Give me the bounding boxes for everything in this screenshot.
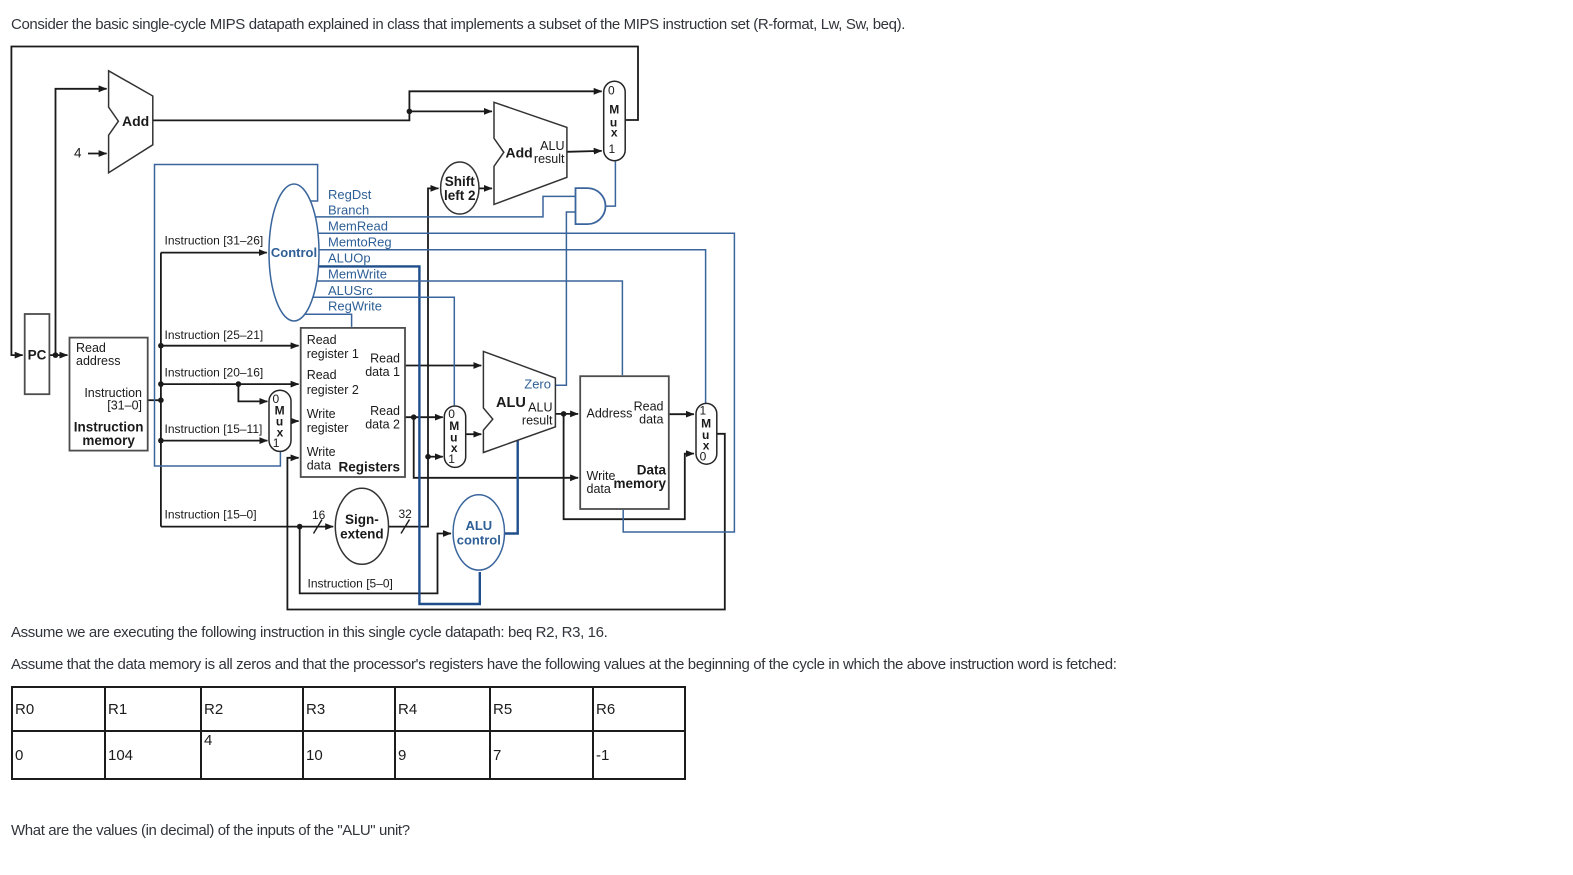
svg-text:MemtoReg: MemtoReg: [328, 235, 392, 250]
junction: sign-extend riser branch: [425, 454, 431, 460]
wire: Instruction [5-0] to ALU control: [300, 527, 451, 594]
svg-text:Read: Read: [370, 352, 400, 366]
svg-text:Instruction [31–26]: Instruction [31–26]: [165, 234, 264, 248]
svg-text:ALU: ALU: [528, 401, 552, 415]
svg-text:0: 0: [700, 450, 707, 464]
question intro text: [11, 16, 905, 34]
component: MemtoReg mux: [696, 403, 717, 464]
wire: PC+4 branch to second Add top input: [409, 110, 492, 112]
wire: ALUSrc mux output to ALU input 2: [466, 433, 481, 435]
component: top Mux (PCSrc): [604, 81, 626, 160]
svg-text:Zero: Zero: [524, 377, 551, 392]
junction: PC output: [53, 352, 59, 358]
wire: ALUSrc control signal to ALUSrc mux select: [313, 297, 454, 405]
wire: Shift left 2 output to second Add bottom input: [479, 187, 492, 189]
component: data memory box: [580, 376, 669, 509]
final question text: [11, 822, 410, 840]
wire: PC output to instruction memory Read address: [49, 354, 67, 356]
component: PC register: [25, 314, 50, 394]
svg-text:control: control: [457, 533, 501, 548]
component: Control unit ellipse: [269, 184, 319, 321]
component: ALU: [483, 351, 555, 452]
wire: Sign-extend output riser to Shift left 2: [389, 188, 439, 526]
svg-text:Read: Read: [307, 368, 337, 382]
component: ALUSrc mux: [444, 406, 465, 467]
wire: PC value riser to Add top input: [56, 89, 107, 355]
svg-text:memory: memory: [82, 433, 135, 448]
svg-text:Address: Address: [587, 407, 633, 421]
svg-text:RegWrite: RegWrite: [328, 299, 382, 314]
svg-text:1: 1: [273, 436, 280, 450]
component: Shift left 2 ellipse: [441, 162, 479, 214]
junction: Instruction [20-16] branch: [236, 381, 242, 387]
svg-text:1: 1: [699, 403, 706, 417]
svg-text:Shift: Shift: [445, 174, 475, 189]
component: registers box: [301, 328, 405, 477]
svg-text:memory: memory: [613, 476, 666, 491]
wire: second Add result to top Mux input 1: [567, 150, 602, 153]
slash: 16-bit bus width mark: [314, 520, 323, 534]
wire: Instruction [20-16] branch to RegDst mux input 0: [238, 384, 267, 401]
component: adder Add (branch target): [494, 102, 567, 204]
junction: instruction bus at memory output: [158, 397, 164, 403]
wire: Instruction [25-21] to Read register 1: [161, 345, 299, 347]
svg-text:Instruction [20–16]: Instruction [20–16]: [165, 365, 264, 379]
wire: RegDst mux output to Write register: [290, 420, 299, 422]
svg-text:Read: Read: [634, 400, 664, 414]
svg-text:register 2: register 2: [307, 383, 359, 397]
wire: instruction memory output to bus: [148, 399, 161, 401]
svg-text:ALU: ALU: [496, 395, 526, 411]
wire: ALU result bypass to MemtoReg mux input 0: [564, 414, 694, 519]
svg-text:Instruction [5–0]: Instruction [5–0]: [308, 577, 393, 591]
svg-text:register: register: [307, 421, 349, 435]
wire: PC-write-back loop (Mux output, top, left side, into PC): [11, 47, 638, 356]
wire: MemtoReg control signal to MemtoReg mux select: [319, 250, 706, 406]
junction: bus tap Instruction [20-16]: [158, 381, 164, 387]
component: instruction memory box: [70, 338, 148, 451]
svg-text:Add: Add: [506, 145, 533, 161]
svg-text:ALU: ALU: [540, 139, 564, 153]
svg-text:address: address: [76, 354, 120, 368]
svg-text:data: data: [639, 413, 663, 427]
svg-text:Instruction [15–11]: Instruction [15–11]: [165, 422, 263, 436]
svg-text:Write: Write: [307, 407, 336, 421]
wire: ALU result to data memory Address: [555, 413, 578, 415]
wire: Instruction [15-11] to RegDst mux input 1: [161, 440, 268, 442]
junction: bus tap Instruction [15-11]: [158, 438, 164, 444]
svg-text:M: M: [609, 103, 619, 117]
bottom text 1: [11, 624, 607, 642]
wire: Instruction [20-16] to Read register 2: [161, 383, 299, 385]
svg-text:PC: PC: [28, 348, 47, 363]
component: Sign-extend ellipse: [335, 488, 388, 564]
wire: RegWrite control signal to Registers: [305, 314, 352, 327]
svg-text:ALUOp: ALUOp: [328, 251, 371, 266]
svg-text:RegDst: RegDst: [328, 187, 372, 202]
svg-text:0: 0: [608, 84, 615, 98]
svg-text:Read: Read: [370, 404, 400, 418]
wire: Read data 2 branch to data memory Write data: [414, 417, 578, 478]
svg-text:data 2: data 2: [365, 418, 400, 432]
svg-text:Registers: Registers: [338, 459, 400, 474]
svg-text:MemWrite: MemWrite: [328, 267, 387, 282]
component: RegDst mux: [269, 390, 291, 451]
wire: AND gate output to top Mux select: [606, 162, 616, 207]
register value table: [11, 686, 686, 780]
wire: constant 4 into Add bottom input: [88, 153, 107, 155]
svg-text:Control: Control: [271, 245, 317, 260]
svg-text:32: 32: [399, 507, 413, 521]
svg-text:MemRead: MemRead: [328, 218, 388, 233]
svg-text:16: 16: [312, 508, 326, 522]
bottom text 2: [11, 656, 1116, 674]
wire: Add (PC+4) output to top Mux input 0: [153, 91, 602, 120]
slash: 32-bit bus width mark: [401, 520, 410, 534]
component: adder Add (PC+4): [109, 71, 153, 173]
svg-text:Read: Read: [307, 333, 337, 347]
svg-text:1: 1: [448, 452, 455, 466]
wire: RegDst control signal (loop around control to RegDst mux select): [155, 165, 318, 467]
junction: ALU result branch: [561, 411, 567, 417]
svg-text:result: result: [522, 414, 553, 428]
svg-text:Instruction [25–21]: Instruction [25–21]: [165, 328, 264, 342]
wire: ALUOp control signal to ALU control (thick): [319, 266, 480, 604]
svg-text:Write: Write: [587, 469, 616, 483]
svg-text:data: data: [587, 482, 611, 496]
junction: Instruction [15-0] branch to funct field: [297, 524, 303, 530]
wire: instruction bus vertical: [160, 253, 162, 527]
component: AND gate (branch): [576, 188, 606, 224]
wire: MemWrite control signal to data memory write port: [317, 281, 622, 375]
wire: Branch control signal to AND gate top input: [315, 196, 577, 217]
svg-text:Branch: Branch: [328, 203, 369, 218]
MIPS datapath diagram: [0, 0, 760, 620]
svg-text:x: x: [611, 126, 618, 140]
svg-text:Read: Read: [76, 341, 106, 355]
wire: data memory Read data to MemtoReg mux input 1: [669, 413, 694, 415]
wire: ALU Zero output to AND gate bottom input: [555, 212, 576, 385]
svg-text:extend: extend: [340, 526, 384, 541]
svg-text:register 1: register 1: [307, 347, 359, 361]
svg-text:1: 1: [608, 142, 615, 156]
svg-text:4: 4: [74, 145, 82, 160]
svg-text:Add: Add: [122, 113, 149, 129]
svg-text:ALUSrc: ALUSrc: [328, 283, 373, 298]
junction: bus tap Instruction [25-21]: [158, 343, 164, 349]
svg-text:Instruction [15–0]: Instruction [15–0]: [165, 507, 257, 521]
junction: Read data 2 branch: [411, 414, 417, 420]
svg-text:Write: Write: [307, 445, 336, 459]
wire: Read data 2 to ALUSrc mux input 0: [405, 416, 443, 418]
svg-text:left 2: left 2: [444, 188, 476, 203]
wire: write-back from MemtoReg mux to Registers Write data: [287, 434, 724, 610]
svg-text:Sign-: Sign-: [345, 512, 379, 527]
wire: Instruction [15-0] to Sign-extend: [161, 526, 333, 528]
wire: MemRead control signal to data memory read port: [318, 233, 734, 532]
svg-text:data 1: data 1: [365, 365, 400, 379]
wire: sign-extended immediate to ALUSrc mux input 1: [428, 456, 443, 458]
component: ALU control ellipse: [453, 495, 504, 570]
svg-text:data: data: [307, 459, 331, 473]
svg-text:ALU: ALU: [465, 518, 492, 533]
svg-text:result: result: [534, 152, 565, 166]
wire: Read data 1 to ALU input 1: [405, 365, 481, 367]
wire: Instruction [31-26] to Control: [161, 252, 267, 254]
junction: PC+4 branch point: [407, 109, 413, 115]
svg-text:[31–0]: [31–0]: [107, 399, 142, 413]
wire: ALU control output to ALU control input (thick): [505, 440, 518, 534]
